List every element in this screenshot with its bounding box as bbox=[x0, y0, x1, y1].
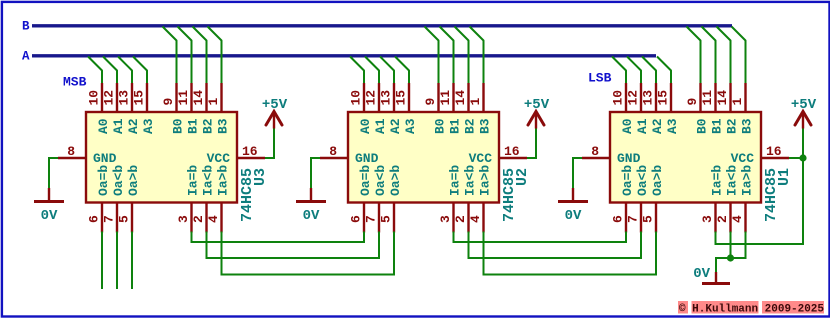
pin 16 (VCC) of U2 bbox=[499, 144, 527, 159]
svg-text:+5V: +5V bbox=[524, 97, 550, 113]
svg-text:6: 6 bbox=[87, 215, 102, 223]
wire VCC pin to +5V of U3 bbox=[265, 128, 274, 158]
svg-text:B2: B2 bbox=[725, 118, 740, 134]
pin 11 (B1) of U1 bbox=[700, 83, 716, 112]
pin 13 (A2) of U3 bbox=[117, 83, 133, 112]
svg-text:13: 13 bbox=[379, 90, 394, 106]
svg-text:1: 1 bbox=[730, 98, 745, 106]
svg-text:4: 4 bbox=[468, 215, 483, 223]
wire bus A to pin A2 U3 bbox=[118, 57, 132, 86]
svg-text:3: 3 bbox=[700, 215, 715, 223]
pin 7 (Oa&lt;b) of U2 bbox=[364, 203, 380, 233]
wire bus B to pin B2 U1 bbox=[717, 27, 731, 86]
pin 9 (B0) of U2 bbox=[423, 83, 439, 112]
svg-text:6: 6 bbox=[349, 215, 364, 223]
svg-text:B2: B2 bbox=[201, 118, 216, 134]
pin 5 (Oa&gt;b) of U3 bbox=[117, 203, 133, 233]
svg-text:8: 8 bbox=[329, 144, 337, 159]
svg-text:11: 11 bbox=[700, 90, 715, 106]
svg-text:GND: GND bbox=[617, 151, 641, 166]
svg-text:Oa<b: Oa<b bbox=[111, 165, 126, 196]
svg-text:8: 8 bbox=[591, 144, 599, 159]
svg-text:A0: A0 bbox=[96, 118, 111, 134]
IC U2 74HC85 body bbox=[348, 112, 499, 203]
svg-text:Oa>b: Oa>b bbox=[126, 165, 141, 196]
svg-text:MSB: MSB bbox=[63, 75, 87, 90]
svg-text:0V: 0V bbox=[41, 208, 58, 224]
svg-text:A1: A1 bbox=[373, 118, 388, 134]
pin 9 (B0) of U1 bbox=[685, 83, 701, 112]
svg-text:3: 3 bbox=[176, 215, 191, 223]
svg-text:2: 2 bbox=[453, 215, 468, 223]
wire bus A to pin A0 U2 bbox=[350, 57, 364, 86]
pin 2 (Ia&lt;b) of U2 bbox=[453, 203, 469, 233]
svg-text:B0: B0 bbox=[171, 118, 186, 134]
svg-text:U2: U2 bbox=[514, 168, 531, 186]
svg-text:A2: A2 bbox=[126, 118, 141, 134]
wire output Oa&gt;b of U3 going down bbox=[131, 232, 133, 290]
svg-text:B1: B1 bbox=[710, 118, 725, 134]
svg-text:4: 4 bbox=[730, 215, 745, 223]
svg-text:GND: GND bbox=[355, 151, 379, 166]
wire bus B to pin B1 U2 bbox=[440, 27, 454, 86]
wire GND pin to 0V of U1 bbox=[573, 158, 582, 188]
bus B bbox=[32, 24, 732, 27]
svg-text:Oa=b: Oa=b bbox=[620, 165, 635, 196]
svg-text:15: 15 bbox=[656, 90, 671, 106]
svg-text:10: 10 bbox=[611, 90, 626, 106]
wire bus B to pin B1 U1 bbox=[702, 27, 716, 86]
svg-text:B2: B2 bbox=[463, 118, 478, 134]
pin 13 (A2) of U1 bbox=[641, 83, 657, 112]
svg-text:10: 10 bbox=[349, 90, 364, 106]
wire bus B to pin B0 U3 bbox=[163, 27, 177, 86]
wire bus A to pin A3 U1 bbox=[657, 57, 671, 86]
svg-text:7: 7 bbox=[364, 215, 379, 223]
svg-text:0V: 0V bbox=[693, 266, 710, 282]
IC U3 74HC85 body bbox=[86, 112, 237, 203]
pin 4 (Ia&gt;b) of U2 bbox=[468, 203, 484, 233]
wire Ia<b U1 down to junction bbox=[730, 232, 732, 260]
wire Ia&gt;b U2 to Oa&gt;b U1 bbox=[484, 232, 657, 275]
svg-text:14: 14 bbox=[453, 90, 468, 106]
svg-text:6: 6 bbox=[611, 215, 626, 223]
svg-text:U1: U1 bbox=[776, 168, 793, 186]
svg-text:16: 16 bbox=[766, 144, 782, 159]
svg-text:12: 12 bbox=[626, 90, 641, 106]
svg-text:Ia<b: Ia<b bbox=[463, 165, 478, 196]
svg-text:B3: B3 bbox=[740, 118, 755, 134]
pin 13 (A2) of U2 bbox=[379, 83, 395, 112]
svg-text:4: 4 bbox=[206, 215, 221, 223]
svg-text:7: 7 bbox=[626, 215, 641, 223]
svg-text:14: 14 bbox=[191, 90, 206, 106]
svg-text:VCC: VCC bbox=[731, 151, 755, 166]
svg-text:A3: A3 bbox=[665, 118, 680, 134]
power symbol +5V at U1 bbox=[791, 97, 817, 129]
pin 14 (B2) of U3 bbox=[191, 83, 207, 112]
svg-text:2: 2 bbox=[715, 215, 730, 223]
svg-text:Ia<b: Ia<b bbox=[725, 165, 740, 196]
IC U1 74HC85 body bbox=[610, 112, 761, 203]
svg-text:9: 9 bbox=[423, 98, 438, 106]
svg-text:B3: B3 bbox=[216, 118, 231, 134]
pin 6 (Oa=b) of U1 bbox=[611, 203, 627, 233]
wire bus A to pin A0 U3 bbox=[88, 57, 102, 86]
pin 15 (A3) of U3 bbox=[132, 83, 148, 112]
svg-text:Oa=b: Oa=b bbox=[358, 165, 373, 196]
pin 1 (B3) of U2 bbox=[468, 83, 484, 112]
svg-text:15: 15 bbox=[394, 90, 409, 106]
pin 11 (B1) of U3 bbox=[176, 83, 192, 112]
svg-text:16: 16 bbox=[242, 144, 258, 159]
svg-text:Ia=b: Ia=b bbox=[186, 165, 201, 196]
svg-text:13: 13 bbox=[641, 90, 656, 106]
wire GND pin to 0V of U3 bbox=[49, 158, 58, 188]
pin 3 (Ia=b) of U1 bbox=[700, 203, 716, 233]
pin 12 (A1) of U3 bbox=[102, 83, 118, 112]
pin 2 (Ia&lt;b) of U1 bbox=[715, 203, 731, 233]
svg-text:12: 12 bbox=[102, 90, 117, 106]
pin 7 (Oa&lt;b) of U3 bbox=[102, 203, 118, 233]
svg-text:A3: A3 bbox=[403, 118, 418, 134]
svg-text:Ia>b: Ia>b bbox=[740, 165, 755, 196]
copyright watermark bbox=[678, 301, 824, 316]
svg-text:B1: B1 bbox=[448, 118, 463, 134]
wire bus B to pin B3 U3 bbox=[208, 27, 222, 86]
pin 8 (GND) of U2 bbox=[320, 144, 348, 159]
pin 6 (Oa=b) of U3 bbox=[87, 203, 103, 233]
wire bus B to pin B0 U2 bbox=[425, 27, 439, 86]
pin 1 (B3) of U1 bbox=[730, 83, 746, 112]
svg-text:B3: B3 bbox=[478, 118, 493, 134]
wire junction to ground below U1 bbox=[716, 258, 731, 272]
svg-text:7: 7 bbox=[102, 215, 117, 223]
bus A bbox=[32, 54, 656, 57]
pin 3 (Ia=b) of U3 bbox=[176, 203, 192, 233]
pin 12 (A1) of U2 bbox=[364, 83, 380, 112]
wire bus B to pin B2 U3 bbox=[193, 27, 207, 86]
pin 14 (B2) of U1 bbox=[715, 83, 731, 112]
wire bus A to pin A3 U3 bbox=[133, 57, 147, 86]
pin 10 (A0) of U1 bbox=[611, 83, 627, 112]
svg-text:13: 13 bbox=[117, 90, 132, 106]
svg-text:5: 5 bbox=[379, 215, 394, 223]
wire VCC pin to +5V of U1 bbox=[789, 128, 803, 158]
pin 4 (Ia&gt;b) of U3 bbox=[206, 203, 222, 233]
svg-text:B0: B0 bbox=[433, 118, 448, 134]
pin 1 (B3) of U3 bbox=[206, 83, 222, 112]
svg-text:5: 5 bbox=[641, 215, 656, 223]
pin 2 (Ia&lt;b) of U3 bbox=[191, 203, 207, 233]
wire bus A to pin A1 U2 bbox=[365, 57, 379, 86]
svg-text:14: 14 bbox=[715, 90, 730, 106]
wire bus A to pin A2 U2 bbox=[380, 57, 394, 86]
svg-text:A0: A0 bbox=[620, 118, 635, 134]
wire Ia=b U2 to Oa=b U1 bbox=[454, 232, 627, 243]
wire Ia=b U1 to +5V rail bbox=[716, 158, 804, 244]
svg-text:B0: B0 bbox=[695, 118, 710, 134]
junction node on +5V rail at U1 bbox=[799, 154, 806, 161]
svg-text:9: 9 bbox=[685, 98, 700, 106]
svg-text:1: 1 bbox=[468, 98, 483, 106]
svg-text:9: 9 bbox=[161, 98, 176, 106]
pin 4 (Ia&gt;b) of U1 bbox=[730, 203, 746, 233]
svg-text:10: 10 bbox=[87, 90, 102, 106]
pin 7 (Oa&lt;b) of U1 bbox=[626, 203, 642, 233]
svg-text:© H.Kullmann 2009-2025: © H.Kullmann 2009-2025 bbox=[679, 304, 824, 316]
power symbol +5V at U2 bbox=[524, 97, 550, 129]
svg-text:5: 5 bbox=[117, 215, 132, 223]
power symbol +5V at U3 bbox=[262, 97, 288, 129]
svg-text:A2: A2 bbox=[650, 118, 665, 134]
svg-text:B1: B1 bbox=[186, 118, 201, 134]
svg-text:Oa>b: Oa>b bbox=[650, 165, 665, 196]
pin 9 (B0) of U3 bbox=[161, 83, 177, 112]
svg-text:16: 16 bbox=[504, 144, 520, 159]
pin 3 (Ia=b) of U2 bbox=[438, 203, 454, 233]
wire GND pin to 0V of U2 bbox=[311, 158, 320, 188]
wire Ia&lt;b U2 to Oa&lt;b U1 bbox=[469, 232, 642, 259]
svg-text:A3: A3 bbox=[141, 118, 156, 134]
wire bus B to pin B3 U2 bbox=[470, 27, 484, 86]
svg-text:Oa<b: Oa<b bbox=[373, 165, 388, 196]
wire Ia=b U3 to Oa=b U2 bbox=[192, 232, 365, 243]
pin 11 (B1) of U2 bbox=[438, 83, 454, 112]
svg-text:Ia>b: Ia>b bbox=[216, 165, 231, 196]
wire bus A to pin A3 U2 bbox=[395, 57, 409, 86]
wire bus A to pin A2 U1 bbox=[642, 57, 656, 86]
wire Ia&lt;b U3 to Oa&lt;b U2 bbox=[207, 232, 380, 259]
svg-text:0V: 0V bbox=[303, 208, 320, 224]
svg-text:12: 12 bbox=[364, 90, 379, 106]
svg-text:U3: U3 bbox=[252, 168, 269, 186]
svg-text:A1: A1 bbox=[111, 118, 126, 134]
svg-text:0V: 0V bbox=[565, 208, 582, 224]
wire output Oa=b of U3 going down bbox=[101, 232, 103, 290]
ground symbol 0V below U1 bbox=[693, 266, 730, 284]
svg-text:11: 11 bbox=[176, 90, 191, 106]
svg-text:3: 3 bbox=[438, 215, 453, 223]
svg-text:+5V: +5V bbox=[262, 97, 288, 113]
svg-text:Ia>b: Ia>b bbox=[478, 165, 493, 196]
wire Ia&gt;b U3 to Oa&gt;b U2 bbox=[222, 232, 395, 275]
pin 8 (GND) of U1 bbox=[582, 144, 610, 159]
wire output Oa&lt;b of U3 going down bbox=[116, 232, 118, 290]
svg-text:GND: GND bbox=[93, 151, 117, 166]
ground symbol 0V at U1 bbox=[558, 188, 588, 224]
svg-text:A: A bbox=[22, 50, 30, 64]
svg-text:Ia=b: Ia=b bbox=[448, 165, 463, 196]
wire Ia>b U1 to junction bbox=[731, 232, 746, 259]
pin 8 (GND) of U3 bbox=[58, 144, 86, 159]
pin 15 (A3) of U1 bbox=[656, 83, 672, 112]
wire bus A to pin A0 U1 bbox=[612, 57, 626, 86]
pin 5 (Oa&gt;b) of U1 bbox=[641, 203, 657, 233]
svg-text:2: 2 bbox=[191, 215, 206, 223]
svg-text:Oa>b: Oa>b bbox=[388, 165, 403, 196]
wire bus A to pin A1 U3 bbox=[103, 57, 117, 86]
svg-text:VCC: VCC bbox=[469, 151, 493, 166]
pin 12 (A1) of U1 bbox=[626, 83, 642, 112]
svg-text:+5V: +5V bbox=[791, 97, 817, 113]
wire bus B to pin B2 U2 bbox=[455, 27, 469, 86]
pin 15 (A3) of U2 bbox=[394, 83, 410, 112]
pin 6 (Oa=b) of U2 bbox=[349, 203, 365, 233]
svg-text:A0: A0 bbox=[358, 118, 373, 134]
svg-text:11: 11 bbox=[438, 90, 453, 106]
pin 10 (A0) of U2 bbox=[349, 83, 365, 112]
wire VCC pin to +5V of U2 bbox=[527, 128, 536, 158]
junction node at U1 cascade ground bbox=[727, 254, 734, 261]
svg-text:Oa<b: Oa<b bbox=[635, 165, 650, 196]
svg-text:A2: A2 bbox=[388, 118, 403, 134]
wire bus B to pin B0 U1 bbox=[687, 27, 701, 86]
svg-text:Ia=b: Ia=b bbox=[710, 165, 725, 196]
svg-text:8: 8 bbox=[67, 144, 75, 159]
pin 10 (A0) of U3 bbox=[87, 83, 103, 112]
wire bus B to pin B1 U3 bbox=[178, 27, 192, 86]
svg-text:VCC: VCC bbox=[207, 151, 231, 166]
pin 14 (B2) of U2 bbox=[453, 83, 469, 112]
pin 5 (Oa&gt;b) of U2 bbox=[379, 203, 395, 233]
svg-text:A1: A1 bbox=[635, 118, 650, 134]
svg-text:Oa=b: Oa=b bbox=[96, 165, 111, 196]
svg-text:1: 1 bbox=[206, 98, 221, 106]
wire bus B to pin B3 U1 bbox=[732, 27, 746, 86]
svg-text:B: B bbox=[22, 20, 30, 34]
pin 16 (VCC) of U1 bbox=[761, 144, 789, 159]
pin 16 (VCC) of U3 bbox=[237, 144, 265, 159]
svg-text:Ia<b: Ia<b bbox=[201, 165, 216, 196]
svg-text:LSB: LSB bbox=[588, 71, 612, 86]
svg-text:15: 15 bbox=[132, 90, 147, 106]
wire bus A to pin A1 U1 bbox=[627, 57, 641, 86]
ground symbol 0V at U3 bbox=[34, 188, 64, 224]
ground symbol 0V at U2 bbox=[296, 188, 326, 224]
